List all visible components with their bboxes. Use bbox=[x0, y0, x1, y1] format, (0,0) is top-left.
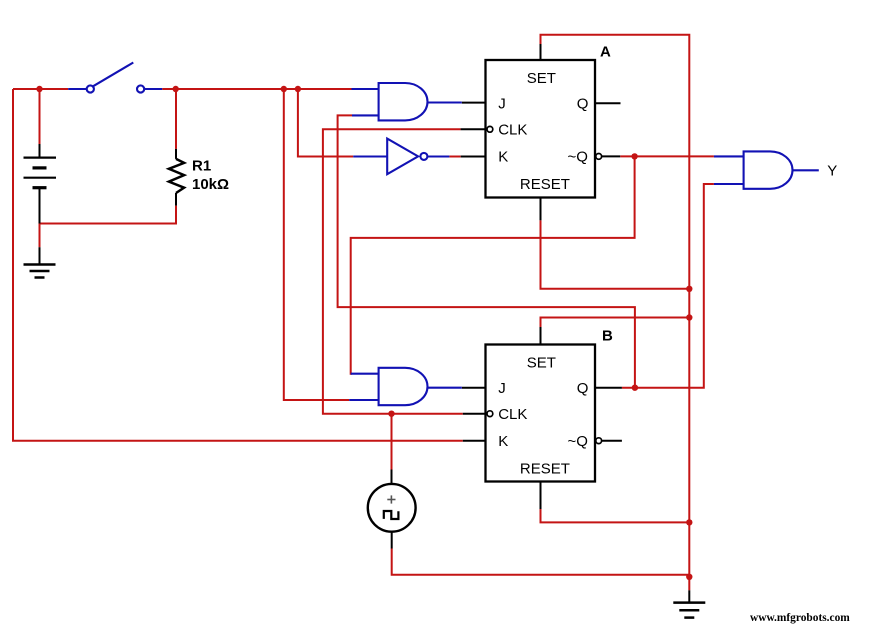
svg-text:A: A bbox=[600, 44, 611, 61]
svg-text:Q: Q bbox=[577, 380, 589, 397]
svg-text:K: K bbox=[498, 148, 508, 165]
svg-text:J: J bbox=[498, 380, 506, 397]
svg-text:~Q: ~Q bbox=[568, 433, 588, 450]
svg-text:CLK: CLK bbox=[498, 406, 527, 423]
svg-text:J: J bbox=[498, 96, 506, 113]
svg-text:B: B bbox=[602, 328, 613, 345]
svg-text:CLK: CLK bbox=[498, 121, 527, 138]
svg-text:RESET: RESET bbox=[520, 176, 570, 193]
svg-text:Y: Y bbox=[827, 163, 837, 180]
svg-text:R1: R1 bbox=[192, 158, 211, 175]
svg-text:K: K bbox=[498, 433, 508, 450]
svg-text:www.mfgrobots.com: www.mfgrobots.com bbox=[750, 612, 850, 624]
svg-text:RESET: RESET bbox=[520, 461, 570, 478]
svg-text:SET: SET bbox=[527, 355, 556, 372]
svg-text:~Q: ~Q bbox=[568, 148, 588, 165]
svg-text:Q: Q bbox=[577, 96, 589, 113]
svg-text:10kΩ: 10kΩ bbox=[192, 176, 229, 193]
svg-text:SET: SET bbox=[527, 70, 556, 87]
